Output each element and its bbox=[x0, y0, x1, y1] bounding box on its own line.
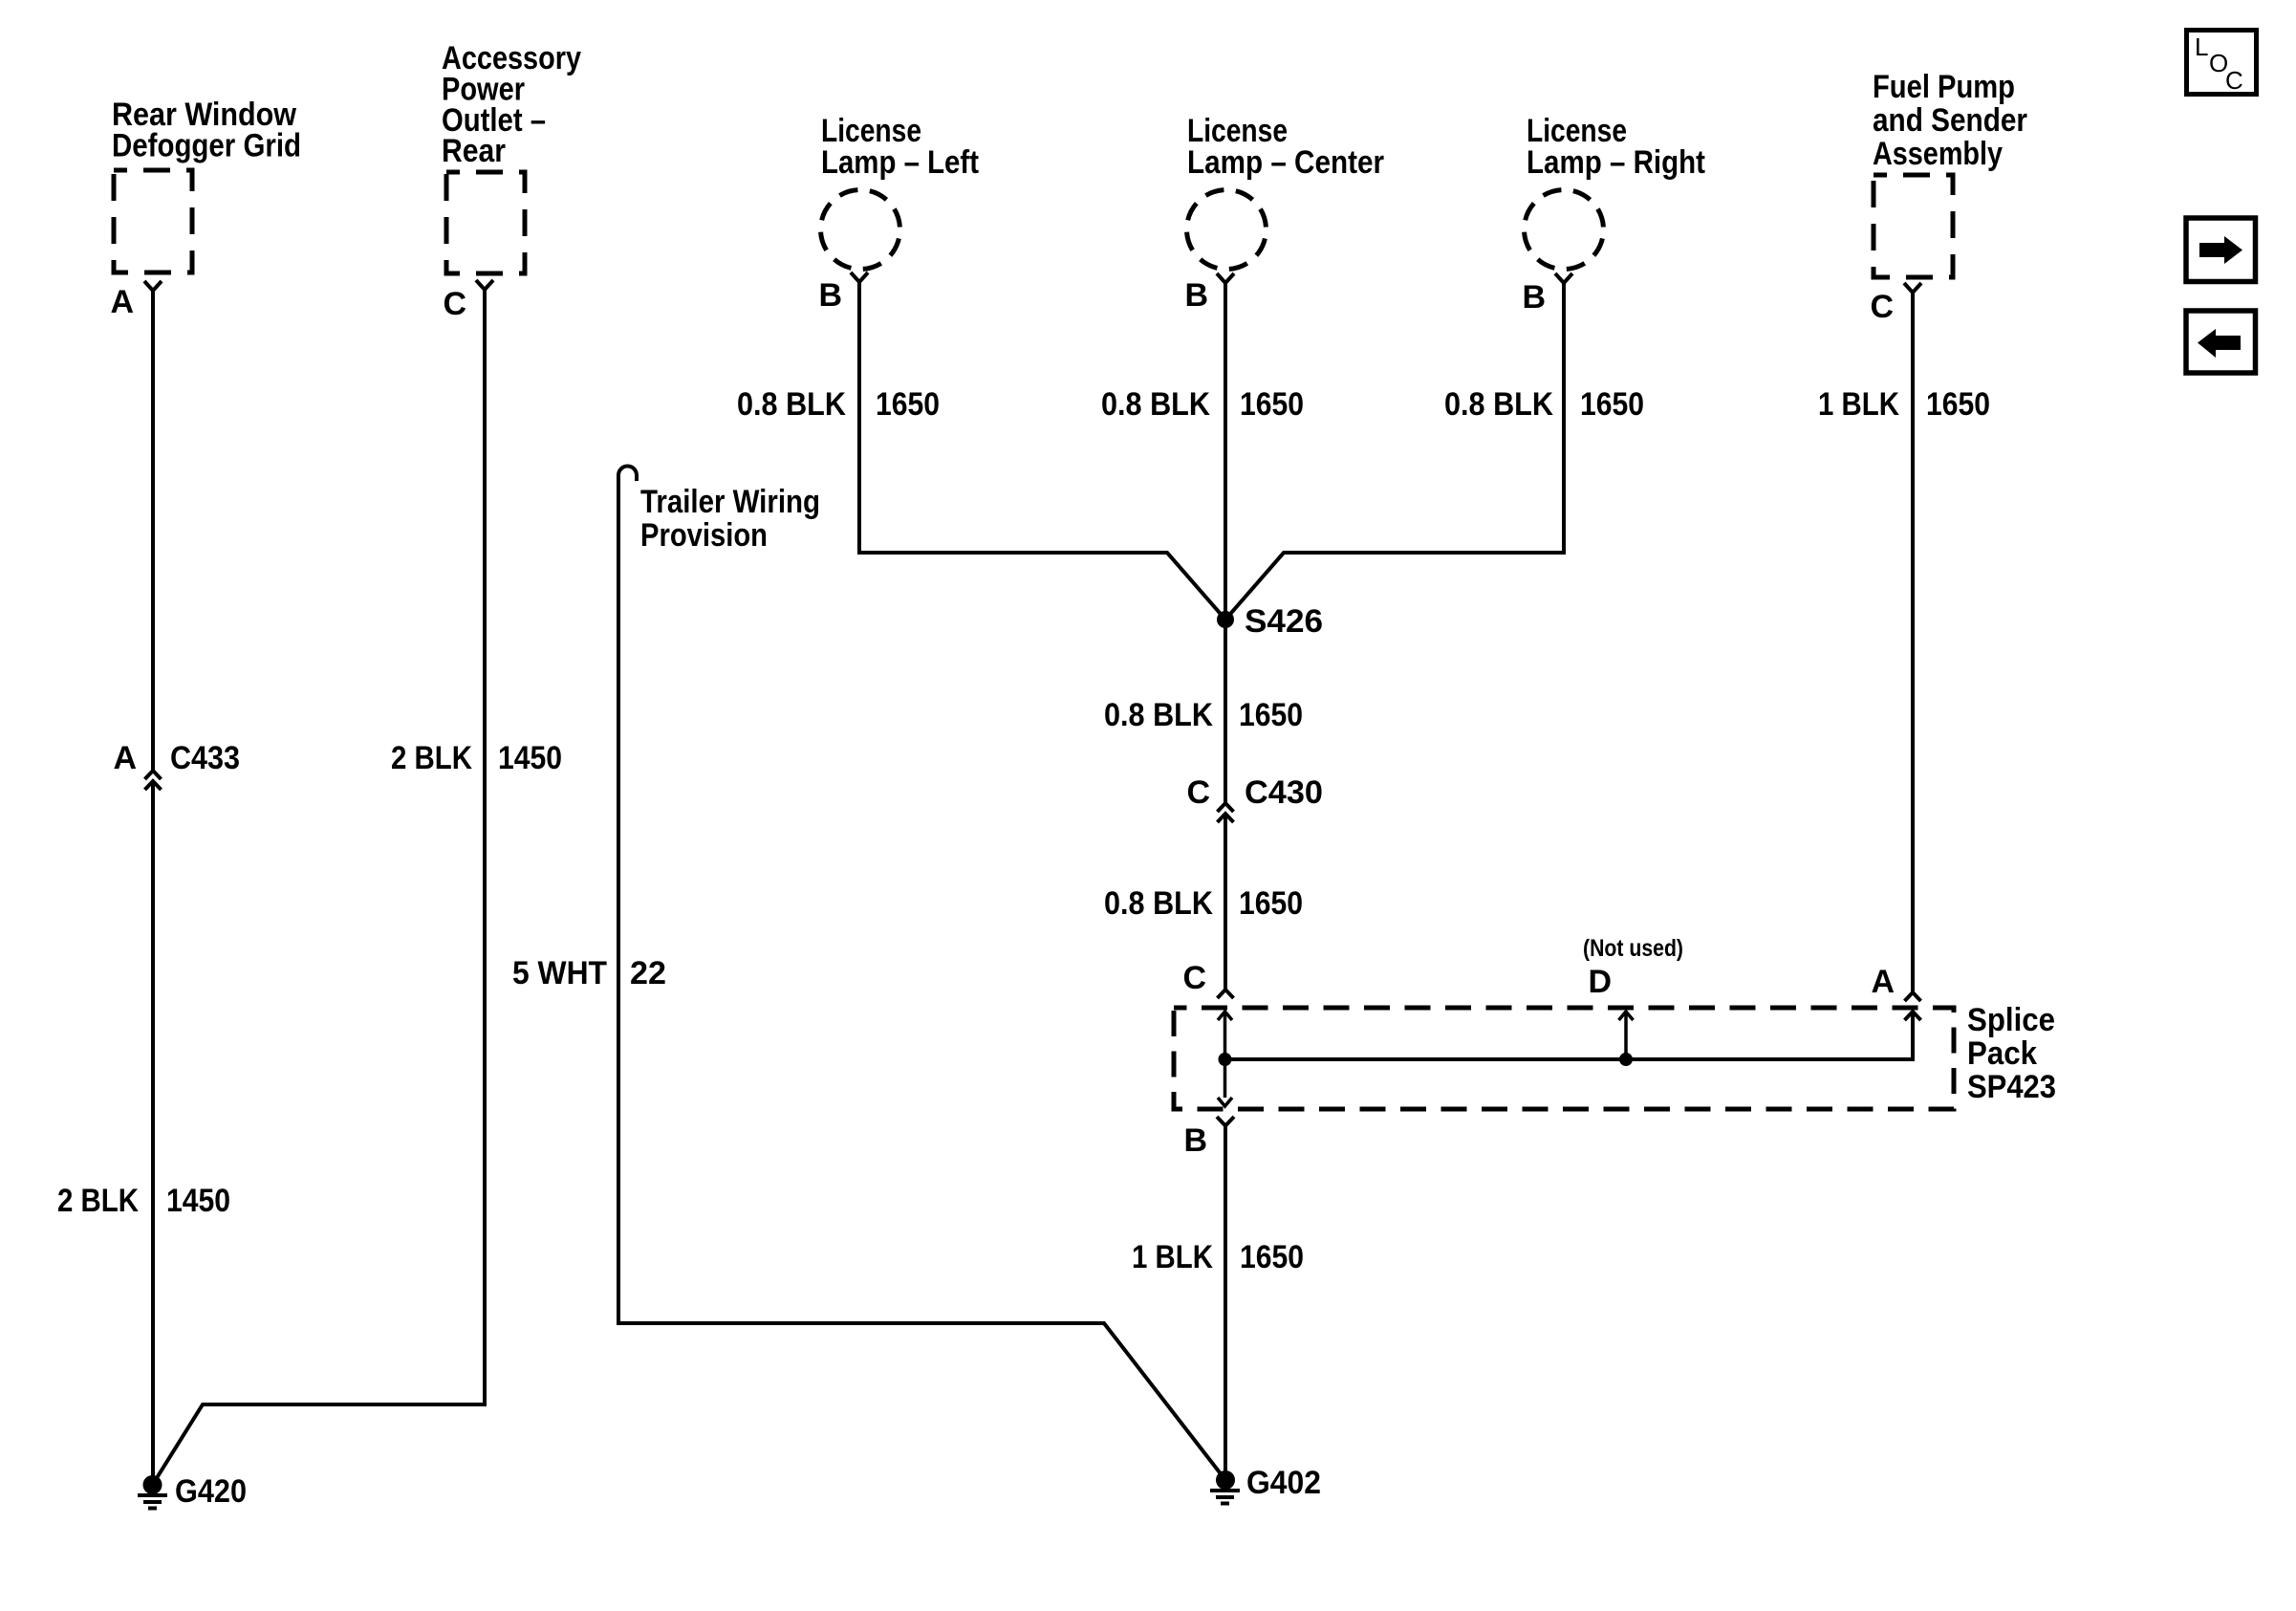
wire value label 2 BLK 1450 bbox=[391, 740, 562, 776]
left arrow navigation box bbox=[2186, 311, 2256, 373]
rear window defogger grid box bbox=[114, 170, 192, 272]
component label: License Lamp - Left bbox=[821, 113, 979, 181]
svg-text:1 BLK: 1 BLK bbox=[1818, 386, 1899, 423]
trailer wiring provision wire with hook bbox=[618, 467, 1225, 1481]
license lamp right bulb circle bbox=[1525, 190, 1604, 270]
svg-text:0.8 BLK: 0.8 BLK bbox=[737, 386, 846, 423]
svg-text:1650: 1650 bbox=[1926, 386, 1990, 423]
component label: Fuel Pump and Sender Assembly bbox=[1873, 69, 2027, 172]
svg-text:0.8 BLK: 0.8 BLK bbox=[1444, 386, 1553, 423]
svg-text:Defogger Grid: Defogger Grid bbox=[112, 128, 301, 164]
svg-text:2 BLK: 2 BLK bbox=[57, 1183, 139, 1219]
component label: Accessory Power Outlet - Rear bbox=[442, 40, 581, 169]
svg-text:C: C bbox=[2225, 66, 2243, 95]
svg-text:1650: 1650 bbox=[1240, 1239, 1304, 1275]
ground G402 bbox=[1210, 1470, 1240, 1504]
connector C433 bbox=[145, 771, 162, 790]
splice pack internal junction dot at C bbox=[1219, 1053, 1232, 1066]
svg-text:Lamp – Left: Lamp – Left bbox=[821, 144, 979, 181]
ground G420 bbox=[138, 1475, 167, 1509]
splice pack internal up arrow at D bbox=[1619, 1012, 1634, 1059]
svg-text:Lamp – Center: Lamp – Center bbox=[1187, 144, 1384, 181]
pin B of license lamp center Y bbox=[1217, 273, 1234, 283]
wire 0.8 BLK 1650 from C430 to splice pack bbox=[1224, 815, 1227, 990]
svg-text:A: A bbox=[1871, 964, 1895, 1000]
svg-text:1650: 1650 bbox=[1239, 885, 1303, 922]
svg-text:G420: G420 bbox=[175, 1473, 247, 1510]
fuel pump and sender assembly box bbox=[1874, 175, 1953, 277]
svg-text:1650: 1650 bbox=[1580, 386, 1644, 423]
splice pack internal bus wire from C to A bbox=[1225, 1012, 1914, 1059]
svg-text:D: D bbox=[1588, 964, 1612, 1000]
component label: License Lamp - Center bbox=[1187, 113, 1384, 181]
splice pack internal down arrow to B bbox=[1218, 1059, 1232, 1106]
svg-text:B: B bbox=[818, 277, 842, 314]
svg-text:(Not used): (Not used) bbox=[1583, 935, 1683, 962]
pin B of license lamp right Y bbox=[1555, 273, 1572, 283]
svg-text:22: 22 bbox=[630, 955, 666, 991]
wire 2 BLK 1450 from C433 to G420 bbox=[151, 782, 155, 1476]
svg-text:C433: C433 bbox=[170, 740, 240, 776]
pin C chevron at splice pack bbox=[1218, 990, 1234, 998]
pin C of accessory outlet connector Y bbox=[476, 280, 493, 290]
svg-text:5 WHT: 5 WHT bbox=[512, 955, 607, 991]
splice pack SP423 box bbox=[1174, 1008, 1954, 1109]
svg-text:B: B bbox=[1184, 277, 1208, 314]
wire 1 BLK 1650 from splice pack to G402 bbox=[1224, 1126, 1227, 1481]
svg-text:and Sender: and Sender bbox=[1873, 102, 2027, 139]
svg-text:C430: C430 bbox=[1245, 774, 1323, 811]
svg-text:C: C bbox=[1186, 774, 1210, 811]
wire value label 0.8 BLK 1650 bbox=[737, 386, 940, 423]
svg-text:Lamp – Right: Lamp – Right bbox=[1527, 144, 1705, 181]
svg-text:1650: 1650 bbox=[1239, 697, 1303, 733]
connector C430 bbox=[1218, 803, 1234, 822]
pin B V below splice pack bbox=[1217, 1117, 1234, 1126]
svg-text:Assembly: Assembly bbox=[1873, 136, 2003, 172]
pin B of license lamp left Y bbox=[851, 272, 868, 282]
svg-text:B: B bbox=[1522, 279, 1546, 316]
wire value label 0.8 BLK 1650 bbox=[1104, 885, 1303, 922]
connector A chevrons at splice pack bbox=[1905, 992, 1921, 1020]
svg-text:2 BLK: 2 BLK bbox=[391, 740, 472, 776]
splice pack internal junction dot at D bbox=[1619, 1053, 1633, 1066]
svg-text:A: A bbox=[110, 284, 134, 320]
wire value label 0.8 BLK 1650 bbox=[1101, 386, 1304, 423]
wire value label 1 BLK 1650 bbox=[1818, 386, 1990, 423]
license lamp left bulb circle bbox=[821, 190, 900, 270]
pin A of defogger connector Y bbox=[144, 281, 162, 291]
splice S426 bbox=[1217, 611, 1234, 628]
wire value label 1 BLK 1650 bbox=[1132, 1239, 1304, 1275]
wire 0.8 BLK 1650 from license lamp center to C430 bbox=[1224, 283, 1227, 803]
svg-text:1650: 1650 bbox=[876, 386, 940, 423]
svg-text:B: B bbox=[1183, 1122, 1207, 1159]
wire 1 BLK 1650 from fuel pump to splice pack bbox=[1911, 293, 1915, 992]
component label: License Lamp - Right bbox=[1527, 113, 1705, 181]
svg-text:1 BLK: 1 BLK bbox=[1132, 1239, 1213, 1275]
component label: Rear Window Defogger Grid bbox=[112, 97, 301, 164]
license lamp center bulb circle bbox=[1187, 190, 1267, 270]
svg-text:0.8 BLK: 0.8 BLK bbox=[1104, 885, 1213, 922]
svg-text:C: C bbox=[1182, 960, 1206, 996]
right arrow navigation box bbox=[2186, 218, 2256, 282]
svg-text:C: C bbox=[443, 286, 466, 322]
svg-text:L: L bbox=[2195, 33, 2208, 61]
svg-text:Fuel Pump: Fuel Pump bbox=[1873, 69, 2015, 105]
splice pack label bbox=[1967, 1002, 2056, 1105]
wire value label 0.8 BLK 1650 bbox=[1444, 386, 1644, 423]
svg-text:1450: 1450 bbox=[166, 1183, 230, 1219]
svg-text:A: A bbox=[113, 740, 137, 776]
wire 2 BLK from accessory outlet to G420 bbox=[153, 290, 486, 1485]
svg-text:0.8 BLK: 0.8 BLK bbox=[1104, 697, 1213, 733]
wire 0.8 BLK 1650 from license lamp right to S426 bbox=[1225, 283, 1564, 620]
wire 2 BLK 1450 from defogger to C433 bbox=[151, 291, 155, 771]
wire value label 2 BLK 1450 bbox=[57, 1183, 230, 1219]
svg-text:S426: S426 bbox=[1245, 603, 1323, 640]
svg-text:G402: G402 bbox=[1246, 1465, 1321, 1501]
svg-text:Provision: Provision bbox=[640, 517, 768, 554]
svg-text:Rear: Rear bbox=[442, 133, 506, 169]
trailer wiring provision label bbox=[640, 484, 820, 554]
wire 0.8 BLK 1650 from license lamp left to S426 bbox=[859, 282, 1225, 620]
svg-text:1450: 1450 bbox=[498, 740, 562, 776]
svg-text:1650: 1650 bbox=[1240, 386, 1304, 423]
LOC legend box bbox=[2187, 31, 2257, 96]
wire value label 0.8 BLK 1650 bbox=[1104, 697, 1303, 733]
pin C of fuel pump connector Y bbox=[1904, 283, 1921, 293]
svg-text:0.8 BLK: 0.8 BLK bbox=[1101, 386, 1210, 423]
svg-text:SP423: SP423 bbox=[1967, 1069, 2056, 1105]
wire value label 5 WHT 22 bbox=[512, 955, 666, 991]
svg-text:Splice: Splice bbox=[1967, 1002, 2055, 1038]
accessory power outlet box bbox=[446, 172, 525, 273]
svg-text:C: C bbox=[1870, 289, 1894, 325]
splice pack internal up arrow at C bbox=[1218, 1012, 1232, 1059]
svg-text:Trailer Wiring: Trailer Wiring bbox=[640, 484, 820, 520]
svg-text:Pack: Pack bbox=[1967, 1035, 2037, 1072]
